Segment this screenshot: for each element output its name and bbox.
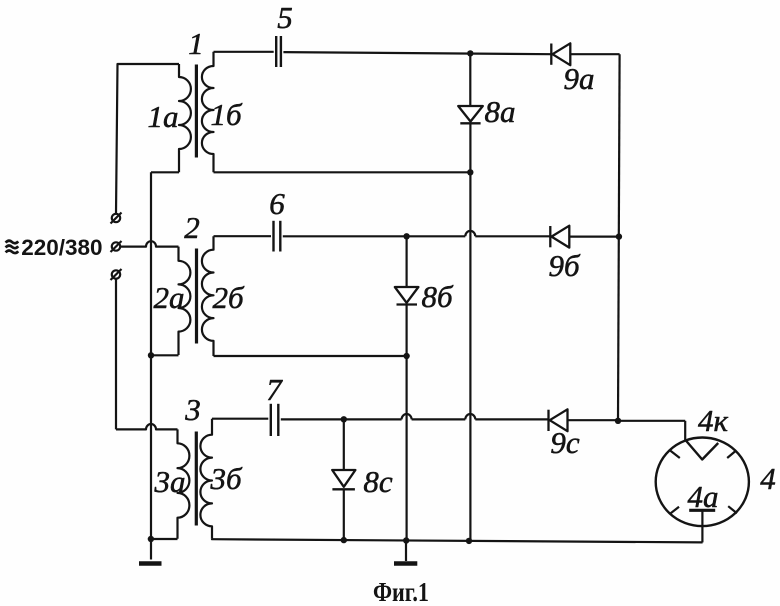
wire 9c to lamp (568, 419, 686, 422)
svg-text:8б: 8б (421, 279, 454, 314)
node bottom bus 470 (466, 538, 472, 544)
svg-text:4: 4 (760, 461, 776, 496)
wire lamp top stub (684, 421, 686, 440)
input terminal B (111, 241, 122, 252)
transformer T1 winding 1a (179, 64, 191, 172)
node right bus bottom (615, 418, 621, 424)
transformer T1 core (195, 65, 198, 158)
wire 3b top to cap 7 (212, 418, 268, 420)
diode 9c (549, 409, 568, 431)
wire phase B to 2a top (120, 241, 178, 246)
svg-text:1: 1 (188, 26, 204, 61)
transformer T3 winding 3a (178, 429, 190, 538)
lamp tick upper left (670, 451, 680, 458)
lamp tick lower left (670, 507, 679, 514)
node bottom 8c (341, 537, 347, 543)
wire left bus (neutral) (150, 172, 152, 559)
node section1 bottom (467, 169, 473, 175)
svg-text:5: 5 (277, 0, 293, 35)
diode 8b (395, 287, 419, 305)
wire 9a to right bus (570, 53, 619, 55)
wire lamp bottom stub (701, 510, 703, 542)
svg-text:4к: 4к (698, 403, 729, 438)
lamp L4 circle (656, 438, 749, 527)
transformer T3 core (195, 432, 198, 526)
diode 8c (332, 470, 355, 489)
lamp cathode 4k (685, 440, 718, 460)
capacitor C7 (271, 404, 279, 436)
svg-text:1а: 1а (148, 99, 179, 134)
wire bus 470 upper (469, 53, 471, 106)
node neutral 3a (148, 536, 154, 542)
svg-text:7: 7 (266, 372, 283, 407)
wire 2a bottom to left bus (151, 354, 179, 356)
lamp anode 4a (689, 509, 715, 512)
node right bus 9b (616, 233, 622, 239)
wire cap 5 to diode 9a (283, 52, 551, 54)
ground left (139, 561, 162, 566)
wire phase C to 3a top (116, 424, 178, 429)
wire bottom rail (212, 539, 703, 543)
capacitor C6 (274, 221, 281, 252)
transformer T3 winding 3b (200, 419, 212, 539)
svg-text:8а: 8а (485, 94, 516, 129)
svg-text:9б: 9б (548, 248, 581, 283)
svg-text:2: 2 (184, 210, 200, 245)
node 8c top (341, 416, 347, 422)
svg-text:6: 6 (269, 186, 285, 221)
svg-text:220/380: 220/380 (21, 235, 102, 260)
wire 8b line lower (406, 305, 408, 541)
svg-text:4а: 4а (688, 479, 719, 514)
wire 8c line lower (343, 489, 345, 540)
node bottom ground (403, 537, 409, 543)
capacitor C5 (276, 36, 281, 67)
svg-text:2б: 2б (212, 280, 245, 315)
diode 9b (550, 226, 569, 248)
transformer T2 core (195, 249, 198, 344)
svg-text:Фиг.1: Фиг.1 (373, 577, 429, 606)
svg-text:3б: 3б (209, 461, 243, 496)
wire cap 7 to diode 9c (281, 414, 548, 419)
svg-text:9а: 9а (564, 61, 595, 96)
wire bus 470 lower (469, 123, 471, 541)
wire right bus (618, 54, 620, 421)
wire 2b top to cap 6 (214, 235, 272, 237)
lamp tick lower right (728, 506, 737, 513)
transformer T2 winding 2b (202, 236, 214, 356)
wire 1a bottom to left bus (151, 171, 179, 173)
node 8b top (403, 233, 409, 239)
svg-text:3а: 3а (154, 464, 186, 499)
lamp tick upper right (727, 451, 736, 458)
diode 8a (458, 106, 483, 123)
wire cap 6 to diode 9b (283, 231, 550, 236)
svg-text:8с: 8с (363, 464, 393, 499)
wire 8c line upper (343, 419, 345, 470)
wire 3a bottom to left bus (151, 538, 178, 540)
ground bottom (394, 561, 417, 566)
wire 8b line upper (406, 236, 408, 287)
svg-text:2а: 2а (154, 280, 185, 315)
transformer T1 winding 1b (202, 52, 214, 173)
wire 9b to right bus (569, 236, 619, 238)
label ~220/380 (6, 235, 103, 260)
wire 1b bottom to bus (214, 171, 471, 173)
transformer T2 winding 2a (179, 247, 191, 355)
input terminal A (111, 213, 122, 224)
node section1 top / bus (467, 50, 473, 56)
wire 2b bottom to 8b line (214, 355, 407, 357)
diode 9a (551, 43, 570, 65)
svg-text:1б: 1б (210, 97, 243, 132)
wire phase C down (115, 279, 117, 430)
wire phase A to 1a top (116, 64, 179, 214)
node 8b bottom wire (403, 353, 409, 359)
node neutral 2a (148, 352, 154, 358)
wire ground stub (405, 541, 407, 562)
input terminal C (111, 269, 122, 280)
wire 1b top to cap 5 (214, 51, 274, 53)
svg-text:9с: 9с (550, 425, 580, 460)
svg-text:3: 3 (184, 392, 201, 427)
